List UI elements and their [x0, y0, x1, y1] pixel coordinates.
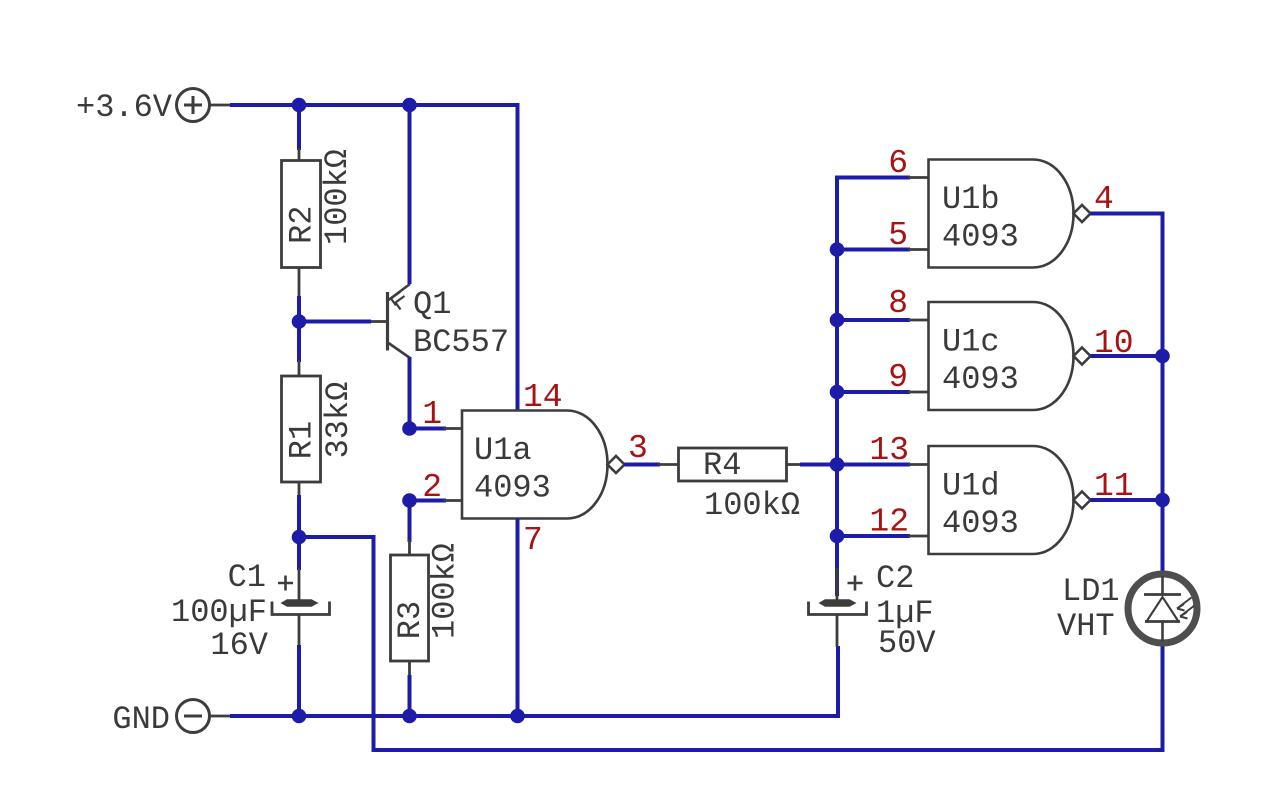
U1b output diamond — [1074, 205, 1091, 222]
svg-text:Q1: Q1 — [413, 286, 451, 323]
svg-text:100kΩ: 100kΩ — [319, 149, 356, 245]
transistor Q1 BC557 — [371, 284, 509, 361]
node rail-Q1 — [402, 98, 417, 113]
svg-text:14: 14 — [523, 379, 563, 416]
node pin2 — [402, 493, 417, 508]
node gnd-C1 — [292, 709, 307, 724]
svg-text:4093: 4093 — [474, 470, 551, 507]
svg-text:100µF: 100µF — [171, 594, 267, 631]
wire to U1a pin1 — [410, 427, 447, 431]
node bus pin13 — [830, 457, 845, 472]
node base — [292, 314, 307, 329]
capacitor C2 1µF — [809, 560, 937, 662]
svg-text:1: 1 — [422, 396, 442, 433]
svg-text:4093: 4093 — [942, 219, 1019, 256]
svg-text:VHT: VHT — [1057, 608, 1115, 645]
resistor R3 100kΩ — [391, 540, 464, 677]
wire U1c output — [1091, 354, 1163, 358]
resistor R4 100kΩ — [679, 447, 803, 524]
op gate U1b 4093 — [929, 160, 1074, 268]
svg-text:5: 5 — [888, 217, 908, 254]
node bus pin12 — [830, 529, 845, 544]
svg-text:4093: 4093 — [942, 505, 1019, 542]
svg-text:9: 9 — [888, 359, 908, 396]
node out10 — [1155, 349, 1170, 364]
wire rail to Q1 emitter — [408, 105, 412, 284]
svg-text:R4: R4 — [703, 447, 741, 484]
node A (R1/C1/feedback) — [292, 530, 307, 545]
resistor R1 33kΩ — [282, 360, 358, 497]
svg-text:U1b: U1b — [942, 181, 1000, 218]
svg-text:50V: 50V — [878, 625, 936, 662]
wire bus to C2 — [835, 570, 839, 594]
wire pin6 stub — [908, 176, 929, 179]
node bus pin5 — [830, 242, 845, 257]
svg-text:R1: R1 — [284, 421, 321, 459]
wire R4 to bus — [800, 463, 837, 467]
svg-text:U1d: U1d — [942, 468, 1000, 505]
wire base node to Q1 — [299, 320, 371, 324]
wire pin13 — [837, 463, 910, 467]
svg-text:33kΩ: 33kΩ — [320, 382, 357, 459]
wire R3 to ground — [408, 675, 412, 716]
wire U1b output to right rail — [1091, 214, 1163, 574]
svg-text:R2: R2 — [284, 205, 321, 243]
svg-text:4093: 4093 — [942, 361, 1019, 398]
svg-text:U1a: U1a — [474, 432, 532, 469]
U1d output diamond — [1074, 492, 1091, 509]
svg-text:16V: 16V — [210, 627, 268, 664]
op gate U1c 4093 — [929, 302, 1074, 410]
node gnd-pin7 — [510, 709, 525, 724]
svg-text:100kΩ: 100kΩ — [427, 543, 464, 639]
svg-text:C2: C2 — [876, 560, 914, 597]
wire C1 to ground rail — [297, 645, 301, 716]
svg-text:7: 7 — [523, 522, 543, 559]
wire power rail — [210, 104, 232, 107]
svg-text:R3: R3 — [392, 601, 429, 639]
wire rail to R2 — [297, 105, 301, 150]
wire node A to C1 — [297, 537, 301, 570]
svg-text:+3.6V: +3.6V — [76, 89, 173, 126]
wire R1 to node A — [297, 495, 301, 537]
wire base node to R1 — [297, 322, 301, 363]
resistor R2 100kΩ — [282, 148, 357, 298]
LED LD1 VHT — [1057, 573, 1197, 645]
svg-text:LD1: LD1 — [1062, 573, 1120, 610]
wire to U1a pin2 — [410, 499, 447, 503]
node bus pin9 — [830, 385, 845, 400]
wire pin12 — [837, 534, 910, 538]
node out11 — [1155, 493, 1170, 508]
svg-text:3: 3 — [628, 430, 648, 467]
svg-text:13: 13 — [869, 432, 909, 469]
wire pin2 node to R3 — [408, 501, 412, 543]
wire input bus — [837, 178, 910, 597]
svg-text:2: 2 — [422, 469, 442, 506]
svg-text:100kΩ: 100kΩ — [704, 487, 800, 524]
U1a output diamond — [608, 456, 625, 473]
svg-text:6: 6 — [888, 145, 908, 182]
U1c output diamond — [1074, 348, 1091, 365]
svg-text:GND: GND — [112, 701, 170, 738]
svg-text:8: 8 — [888, 285, 908, 322]
node bus pin8 — [830, 313, 845, 328]
svg-text:C1: C1 — [228, 559, 266, 596]
node gnd-R3 — [402, 709, 417, 724]
wire pin9 — [837, 390, 910, 394]
wire Q1 collector to pin1 node — [408, 357, 412, 429]
wire R2 to base node — [297, 296, 301, 322]
wire pin8 — [837, 318, 910, 322]
svg-text:BC557: BC557 — [413, 324, 509, 361]
svg-text:U1c: U1c — [942, 324, 1000, 361]
wire feedback from node A — [299, 537, 1163, 750]
wire U1a output to R4 — [625, 463, 661, 467]
op gate U1a 4093 — [462, 411, 608, 519]
node rail-R2 — [292, 98, 307, 113]
wire pin7 to ground — [516, 519, 520, 717]
capacitor C1 100µF — [171, 559, 330, 664]
op gate U1d 4093 — [929, 446, 1074, 554]
wire U1d output — [1091, 498, 1163, 502]
ground terminal GND — [112, 700, 209, 739]
node pin1 — [402, 421, 417, 436]
wire ground rail — [210, 715, 232, 718]
svg-text:12: 12 — [869, 504, 909, 541]
wire pin5 — [837, 248, 910, 252]
power terminal +3.6V — [76, 89, 210, 127]
